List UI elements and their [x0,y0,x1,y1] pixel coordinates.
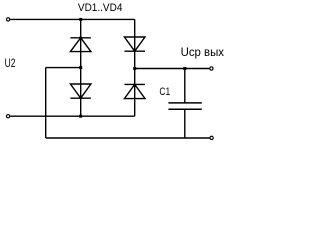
wire top AC rail [10,18,135,20]
junction VD1 apex dot [79,37,82,40]
junction top rail node [79,18,82,21]
junction VD2 apex dot [133,49,136,52]
junction bottom AC node [79,115,82,118]
junction capacitor tap node [183,67,186,70]
svg-text:Uср вых: Uср вых [181,45,224,59]
wire minus branch horizontal [46,67,81,69]
diode VD3 [70,84,91,98]
terminal output plus [210,67,213,70]
junction plus node [133,67,136,70]
terminal output minus [210,136,213,139]
wire minus branch vertical [45,68,47,138]
junction VD3 apex dot [79,96,82,99]
diode VD4 [124,84,145,98]
capacitor C1 [168,103,201,109]
terminal AC input bottom [6,115,9,118]
terminal AC input top [6,18,9,21]
svg-text:C1: C1 [159,86,170,98]
wire left bridge column [80,19,82,116]
junction minus node [79,66,82,69]
diode VD1 [70,38,91,52]
wire plus output rail [135,68,210,70]
svg-text:U2: U2 [5,56,16,70]
svg-text:VD1..VD4: VD1..VD4 [78,2,123,14]
wire capacitor bottom stub [184,109,186,138]
diode VD2 [124,37,145,51]
wire capacitor top stub [184,69,186,103]
junction VD4 apex dot [133,84,136,87]
wire right bridge column [134,19,136,116]
wire bottom output rail [46,137,210,139]
wire bottom AC rail [10,115,135,117]
